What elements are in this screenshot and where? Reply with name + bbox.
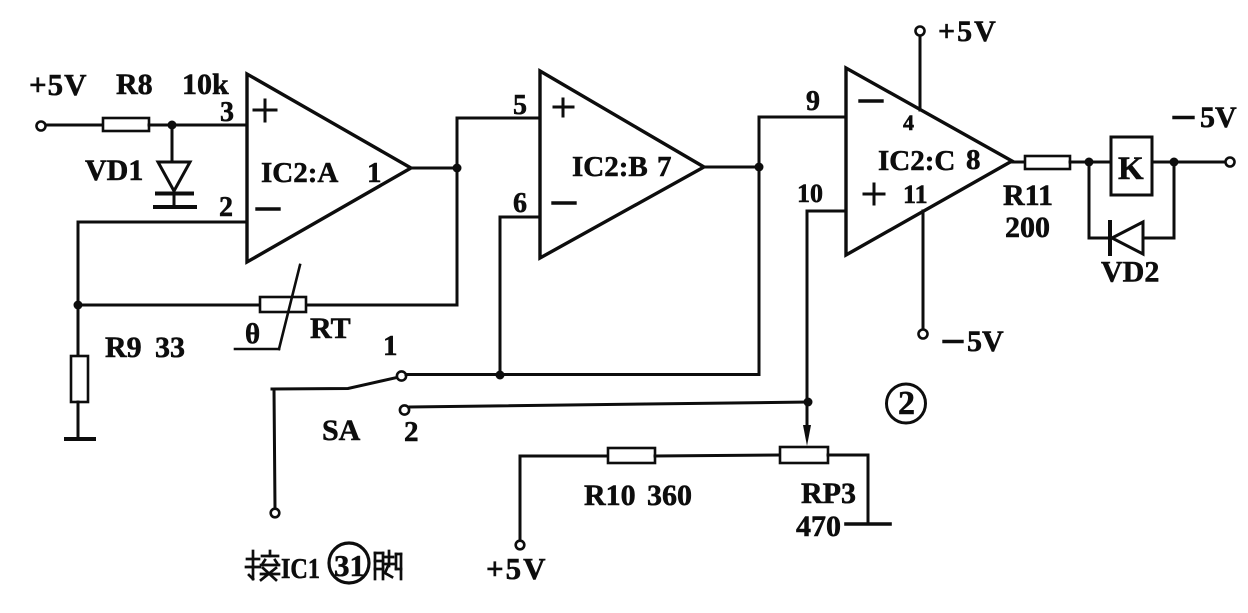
switch SA contact 1 [397,371,406,380]
+5V bottom terminal [516,541,525,550]
-5V label (top right) [1174,101,1237,134]
potentiometer RP3 body [780,447,828,463]
IC2:C plus input sign [864,184,884,204]
svg-text:VD2: VD2 [1101,256,1159,289]
svg-text:33: 33 [155,331,185,364]
junction contact2/pin10 [804,398,813,407]
diode VD2 [1110,222,1143,254]
wire node to R9 [77,305,80,356]
wire junction up to pin 9 level [759,117,846,167]
junction left of relay [1085,158,1094,167]
SA pole wire down [274,389,275,508]
hanzi jie (connect) [246,551,279,580]
svg-text:11: 11 [903,180,928,209]
wire junction up and right to pin 5 [457,118,540,168]
switch SA arm [272,377,399,389]
wire IC2:C output to R11 [1012,161,1025,164]
svg-text:+5V: +5V [486,551,548,586]
wire contact 1 to right [406,373,759,376]
wire terminal to R8 [46,124,103,127]
wire junction down to feedback line [456,168,459,305]
IC2:B plus input sign [554,99,573,116]
svg-text:6: 6 [513,188,527,219]
svg-text:R10: R10 [584,479,636,512]
junction pin6 line / contact1 wire [496,371,505,380]
junction at IC2:A output [453,164,462,173]
svg-text:2: 2 [898,385,915,422]
svg-text:SA: SA [322,414,361,447]
IC2:A plus input sign [254,100,276,121]
RP3 ground bar [846,522,890,526]
junction right of relay [1170,158,1179,167]
thermistor RT body [260,297,306,312]
circled 2 figure number [887,384,926,423]
wire +5V to pin 4 [919,36,922,110]
wire IC2:A output to junction [411,167,457,170]
svg-text:360: 360 [647,479,692,512]
svg-text:VD1: VD1 [85,154,143,187]
resistor R11 [1025,156,1070,169]
wire junction down to switch contact line [758,167,761,374]
resistor R10 [608,448,655,463]
RT thermistor slash [279,265,300,349]
svg-text:7: 7 [657,151,672,183]
wire relay to -5V terminal [1152,161,1225,164]
IC2:A minus input sign [257,207,279,210]
+5V input terminal (top left) [37,122,46,131]
wire pin 11 to -5V [922,211,925,330]
-5V terminal below IC2:C [919,330,928,339]
svg-text:8: 8 [966,144,981,176]
svg-text:R8: R8 [116,68,153,101]
-5V output terminal [1226,158,1235,167]
svg-text:3: 3 [220,97,234,128]
pin 2 wire to left [78,222,247,305]
svg-text:1: 1 [383,330,398,362]
circled 31 pin number [329,543,369,583]
-5V label below IC2:C [944,325,1004,358]
svg-text:IC1: IC1 [281,553,320,585]
svg-text:IC2:C: IC2:C [878,145,955,177]
svg-text:5V: 5V [967,325,1004,358]
RP3 wiper wire [806,402,809,428]
svg-text:5V: 5V [1200,101,1237,134]
pin 10 wire down [807,211,846,402]
diode VD1 [155,162,195,207]
switch SA contact 2 [400,405,409,414]
svg-text:RT: RT [310,312,351,345]
op-amp IC2:B triangle [540,71,704,258]
svg-text:1: 1 [367,157,382,189]
svg-text:31: 31 [334,548,365,583]
VD2 left leg wire [1088,162,1091,238]
node junction R8/VD1 [168,121,177,130]
RP3 wiper arrow [803,425,811,446]
RT thermistor foot [235,348,279,351]
pin 6 wire down to switch line [500,217,540,375]
resistor R8 [103,118,149,131]
wire +5V bottom to R10 [520,456,608,541]
wire R11 to relay [1070,161,1111,164]
junction feedback/R9 node [74,301,83,310]
svg-text:R9: R9 [105,331,142,364]
wire IC2:B output to junction [704,166,759,169]
svg-text:10: 10 [797,179,823,208]
VD2 right leg wire [1173,162,1176,238]
svg-text:IC2:B: IC2:B [572,151,648,183]
wire node to VD1 [171,127,174,162]
wire R8 to op-amp pin 3 [149,124,247,127]
relay K box [1111,137,1152,195]
wire contact 2 to pin 10 line [410,402,808,407]
svg-text:5: 5 [513,90,527,121]
+5V terminal above IC2:C [916,27,925,36]
svg-text:RP3: RP3 [801,477,856,510]
wire R9 to ground [77,402,80,438]
svg-text:+5V: +5V [29,67,88,102]
svg-text:R11: R11 [1003,179,1053,212]
IC2:B minus input sign [553,201,575,204]
resistor R9 [71,356,88,402]
svg-text:4: 4 [903,110,914,135]
RP3 right wire to ground [828,455,868,524]
IC2:C minus input sign [860,99,882,102]
svg-text:+5V: +5V [938,15,998,48]
svg-text:2: 2 [404,416,419,448]
svg-text:470: 470 [796,510,841,543]
ground bar [66,437,94,441]
svg-text:200: 200 [1005,211,1050,244]
Chinese note: jie IC1 (31) jiao [246,543,401,585]
junction at IC2:B output [755,163,764,172]
SA pole terminal [271,509,280,518]
hanzi jiao (pin/foot) [375,551,401,579]
svg-text:K: K [1118,151,1144,187]
feedback wire through RT [78,304,457,307]
svg-text:2: 2 [219,192,233,223]
svg-text:IC2:A: IC2:A [261,157,338,189]
op-amp U=IC2:A triangle [247,74,411,262]
wire R10 to RP3 [655,455,780,456]
svg-text:9: 9 [806,86,820,117]
op-amp IC2:C triangle [846,68,1012,255]
VD2 bottom wire [1089,237,1174,240]
svg-text:θ: θ [245,318,260,350]
